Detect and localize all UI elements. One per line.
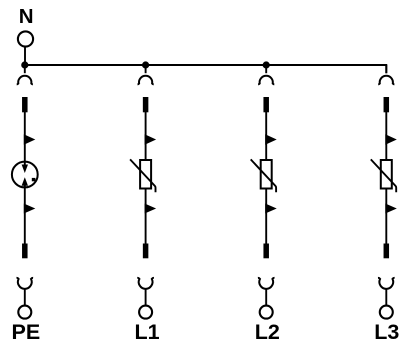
svg-text:L2: L2 xyxy=(255,320,280,344)
terminal L1 xyxy=(139,306,152,319)
disconnect arrow L3 lower xyxy=(385,204,397,214)
connector pin L3 top xyxy=(384,97,390,112)
terminal PE xyxy=(18,306,31,319)
connector pin L1 top xyxy=(143,97,149,112)
wire L2 to terminal xyxy=(265,289,267,305)
varistor R1 diagonal xyxy=(130,159,155,192)
varistor R2 body xyxy=(261,160,272,189)
electrode arrow down xyxy=(22,165,28,174)
varistor R3 body xyxy=(381,160,392,189)
svg-text:L3: L3 xyxy=(374,320,399,344)
wire L1 upper xyxy=(145,112,147,161)
wire L3 upper xyxy=(385,112,387,161)
disconnect arrow L3 upper xyxy=(385,134,397,144)
electrode arrow up xyxy=(22,177,28,186)
connector pin PE top xyxy=(22,97,28,112)
connector pin L1 bottom xyxy=(143,244,149,259)
wire stub PE xyxy=(24,65,26,73)
connector socket L1 top xyxy=(138,76,154,85)
connector socket PE bottom xyxy=(17,278,34,289)
wire bus N xyxy=(25,65,387,73)
wire L2 upper xyxy=(265,112,267,161)
node junction L2 xyxy=(263,61,270,68)
svg-text:PE: PE xyxy=(12,320,41,344)
varistor R2 diagonal xyxy=(251,159,276,192)
connector pin L3 bottom xyxy=(384,244,390,259)
wire L3 lower xyxy=(385,189,387,245)
connector pin L2 bottom xyxy=(263,244,269,259)
disconnect arrow L1 lower xyxy=(145,204,157,214)
connector socket L3 bottom xyxy=(378,278,395,289)
wire L2 lower xyxy=(265,189,267,245)
gas discharge tube F1 xyxy=(12,162,38,188)
node junction L1 xyxy=(142,61,149,68)
varistor R1 body xyxy=(140,160,151,189)
connector socket PE top xyxy=(17,76,33,85)
connector pin PE bottom xyxy=(22,244,28,259)
disconnect arrow L2 lower xyxy=(265,204,277,214)
wire L3 to terminal xyxy=(385,289,387,305)
wire stub L3 xyxy=(385,65,387,73)
wire L1 to terminal xyxy=(145,289,147,305)
terminal N xyxy=(18,31,33,46)
varistor R3 diagonal xyxy=(371,159,396,192)
wire L1 lower xyxy=(145,189,147,245)
disconnect arrow L1 upper xyxy=(145,134,157,144)
wire PE lower xyxy=(24,185,26,244)
gas filling dot xyxy=(32,178,36,181)
svg-text:N: N xyxy=(19,5,34,28)
wire stub L1 xyxy=(145,65,147,73)
wire stub L2 xyxy=(265,65,267,73)
disconnect arrow L2 upper xyxy=(265,134,277,144)
wire N terminal to bus xyxy=(24,47,26,65)
connector socket L2 bottom xyxy=(258,278,275,289)
connector pin L2 top xyxy=(263,97,269,112)
terminal L3 xyxy=(380,306,393,319)
connector socket L1 bottom xyxy=(137,278,154,289)
disconnect arrow PE lower xyxy=(24,204,36,214)
terminal L2 xyxy=(260,306,273,319)
wire PE to terminal xyxy=(24,289,26,305)
disconnect arrow PE upper xyxy=(24,134,36,144)
connector socket L2 top xyxy=(258,76,274,85)
node junction N/PE xyxy=(21,61,28,68)
wire PE upper xyxy=(24,112,26,166)
connector socket L3 top xyxy=(378,76,394,85)
svg-text:L1: L1 xyxy=(134,320,159,344)
